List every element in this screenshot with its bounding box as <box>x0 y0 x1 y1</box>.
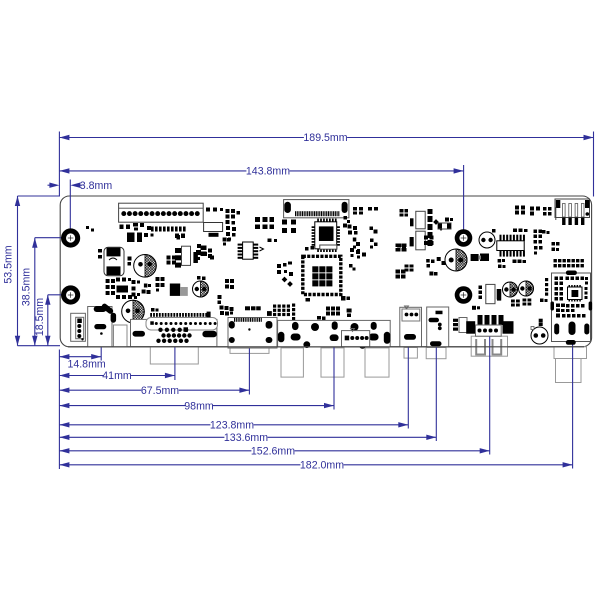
svg-text:123.8mm: 123.8mm <box>210 420 254 432</box>
svg-text:143.8mm: 143.8mm <box>246 166 290 178</box>
svg-text:152.6mm: 152.6mm <box>251 446 295 458</box>
svg-text:3.8mm: 3.8mm <box>80 180 113 192</box>
svg-text:41mm: 41mm <box>102 370 132 382</box>
svg-text:14.8mm: 14.8mm <box>67 359 105 371</box>
svg-text:182.0mm: 182.0mm <box>300 460 344 472</box>
svg-text:38.5mm: 38.5mm <box>21 268 33 306</box>
svg-text:53.5mm: 53.5mm <box>3 245 15 283</box>
svg-text:18.5mm: 18.5mm <box>34 298 46 336</box>
svg-text:98mm: 98mm <box>184 400 214 412</box>
svg-text:189.5mm: 189.5mm <box>303 132 347 144</box>
svg-text:133.6mm: 133.6mm <box>224 432 268 444</box>
svg-text:67.5mm: 67.5mm <box>141 385 179 397</box>
